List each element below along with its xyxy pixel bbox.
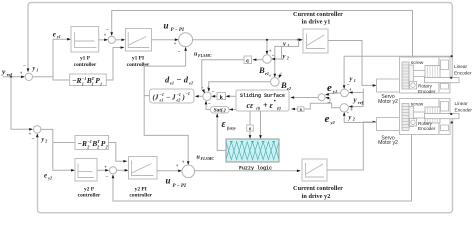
wire combiner output into SS: [290, 96, 318, 99]
svg-text:y1 PI: y1 PI: [132, 56, 144, 62]
svg-text:−1: −1: [160, 92, 164, 97]
svg-text:+: +: [104, 34, 107, 39]
svg-text:1: 1: [287, 43, 289, 48]
wire epsilon outputs from SS down to fuzzy: [249, 111, 262, 139]
svg-text:−1: −1: [177, 92, 181, 97]
svg-text:e: e: [327, 82, 332, 94]
svg-text:(J: (J: [153, 94, 159, 102]
svg-text:y: y: [41, 137, 45, 143]
svg-text:e: e: [44, 172, 47, 180]
svg-text:Fuzzy logic: Fuzzy logic: [239, 164, 273, 171]
svg-text:e: e: [325, 113, 330, 125]
svg-text:+: +: [350, 108, 353, 113]
svg-text:Linear: Linear: [455, 101, 468, 106]
wire SS output into k block: [226, 95, 236, 98]
svg-text:−: −: [178, 50, 181, 55]
svg-text:−: −: [32, 137, 35, 142]
screw mechanism y2: [400, 99, 460, 135]
block y2 P controller: [75, 159, 101, 199]
svg-text:e: e: [53, 30, 56, 38]
svg-text:+: +: [182, 161, 185, 166]
svg-text:+ ε: + ε: [263, 101, 274, 110]
svg-text:Sliding Surface: Sliding Surface: [240, 92, 285, 99]
svg-text:y2: y2: [47, 175, 52, 180]
svg-text:e2: e2: [287, 86, 291, 91]
svg-text:controller: controller: [129, 193, 152, 199]
block k: [211, 93, 225, 101]
svg-text:Encoder: Encoder: [418, 89, 436, 94]
svg-text:−: −: [106, 28, 109, 33]
wire y2 into c-circle from right: [271, 46, 289, 60]
svg-text:2: 2: [96, 144, 99, 149]
wire B path into k-junction: [209, 82, 271, 91]
svg-text:−R: −R: [72, 76, 82, 85]
svg-text:+: +: [176, 164, 179, 169]
label linear encoder y1: [454, 64, 472, 76]
svg-text:y: y: [282, 53, 286, 60]
block s (above fuzzy): [247, 125, 254, 132]
svg-text:Motor y2: Motor y2: [378, 99, 398, 105]
wire y2 linear-encoder feedback bottom loop: [36, 119, 453, 213]
wire y1 feedback from tap to e junction area: [344, 55, 453, 57]
svg-text:c: c: [246, 57, 250, 64]
svg-text:in drive y1: in drive y1: [302, 19, 331, 26]
svg-text:2: 2: [86, 144, 89, 149]
node y_ref input: [1, 67, 25, 78]
svg-text:(t): (t): [277, 105, 282, 110]
svg-text:+: +: [20, 72, 23, 77]
wire junction2 to y2 P controller (e_y2): [41, 129, 75, 180]
svg-text:Encoder: Encoder: [454, 71, 472, 76]
summing junction y2 (y_ref - y2): [29, 126, 48, 144]
svg-text:2: 2: [352, 117, 355, 122]
svg-text:cε: cε: [247, 101, 255, 110]
svg-text:T: T: [97, 139, 100, 144]
svg-text:y1: y1: [56, 34, 61, 39]
wire u_FLSMC into u-junction1 from below: [184, 47, 187, 66]
wire SS bottom output into Sat: [229, 108, 236, 111]
svg-text:+: +: [269, 75, 272, 80]
svg-text:P − PI: P − PI: [173, 184, 187, 189]
svg-text:e2: e2: [189, 81, 193, 86]
label B_e2: [280, 80, 291, 91]
svg-text:in drive y2: in drive y2: [302, 193, 331, 200]
block y2 PI controller: [129, 157, 158, 199]
svg-text:e2: e2: [177, 98, 181, 103]
svg-text:2: 2: [44, 138, 47, 143]
wire branch to R1 block: [53, 77, 70, 80]
block Sliding Surface: [236, 90, 289, 111]
wire c-circle to c block: [253, 58, 263, 61]
wire e_y1 into combiner: [325, 93, 341, 96]
svg-text:y2: y2: [330, 120, 336, 125]
wire y1 rotary-encoder feedback (top inner): [110, 11, 412, 83]
wire u1 tap down to B junction: [274, 40, 299, 78]
block c: [244, 56, 252, 64]
svg-text:Rotary: Rotary: [418, 121, 432, 126]
svg-text:+: +: [104, 166, 107, 171]
wire y1 tap down into c-circle: [266, 39, 272, 55]
svg-text:y: y: [32, 66, 36, 72]
svg-text:): ): [182, 94, 185, 102]
wire PI1 to u-junction1, label u_P-PI: [152, 21, 185, 42]
wire junction1 to y1 P controller (e_y1): [33, 30, 71, 77]
wire c path into k-junction: [202, 60, 244, 93]
wire k-junction output into J block: [195, 95, 203, 98]
block servo motor y2: [377, 118, 401, 147]
block R1 = -R1^-1 B1^T P1: [70, 74, 107, 86]
wire R1 output to PI1 second input: [106, 46, 124, 80]
label epsilon_fuzzy: [222, 119, 236, 131]
block R2 = -R2^-1 B2^T P2: [75, 136, 109, 150]
svg-text:−1: −1: [82, 76, 87, 81]
svg-text:(t): (t): [256, 105, 261, 110]
svg-text:−: −: [327, 101, 330, 106]
svg-text:e1: e1: [170, 81, 174, 86]
wire y2 rotary-encoder feedback (bottom inner): [112, 126, 412, 201]
svg-text:u: u: [164, 21, 169, 31]
label d_e1 - d_e2: [165, 74, 193, 85]
label e_y2: [325, 113, 336, 125]
summing junction k (before J block): [201, 86, 215, 108]
svg-text:k: k: [219, 94, 223, 101]
svg-text:e1: e1: [160, 98, 164, 103]
summing junction combiner (e_y1 - e_y2): [318, 88, 330, 106]
wire y1 linear-encoder feedback top loop: [27, 3, 453, 78]
wire fuzzy output up into Sat: [216, 113, 226, 150]
svg-text:−: −: [208, 103, 211, 108]
label B_e1: [258, 65, 269, 76]
svg-text:controller: controller: [74, 62, 97, 68]
svg-text:s: s: [299, 108, 302, 113]
wire P2 to pre-junction2: [97, 169, 109, 172]
block current controller y2: [293, 159, 343, 200]
svg-text:−R: −R: [78, 139, 88, 148]
block s (right of SS): [298, 107, 304, 113]
svg-text:−: −: [272, 54, 275, 59]
svg-text:1: 1: [82, 81, 84, 86]
wire y_ref branch down to y2 loop: [11, 77, 33, 131]
wire y2 feedback from tap to e junction area: [344, 121, 453, 123]
svg-text:FLSMC: FLSMC: [198, 53, 212, 58]
summing junction pre-PI y2: [104, 166, 116, 180]
svg-text:y1 P: y1 P: [80, 56, 91, 62]
wire e_y2 path through s into SS: [291, 97, 340, 110]
wire R2 output to PI2 second input: [109, 143, 128, 163]
wire current controller y1 to servo motor y1: [328, 41, 377, 87]
svg-text:− J: − J: [166, 94, 176, 102]
summing junction e_y1 (y_ref - y1): [341, 84, 352, 97]
svg-text:Linear: Linear: [454, 64, 467, 69]
wire branch to R2 block: [53, 142, 75, 144]
wire current controller y2 to servo motor y2: [327, 121, 377, 170]
svg-text:T: T: [92, 76, 95, 81]
summing junction pre-PI y1: [104, 28, 116, 43]
label linear encoder y2: [455, 101, 473, 113]
block y1 PI controller: [126, 29, 152, 69]
block y1 P controller: [71, 27, 99, 69]
block (J_e1^-1 - J_e2^-1)^-1: [150, 89, 195, 103]
svg-text:−: −: [212, 91, 215, 96]
svg-text:Motor y2: Motor y2: [378, 140, 398, 146]
svg-text:controller: controller: [127, 62, 150, 68]
block servo motor y1: [377, 79, 401, 105]
summing junction u y1 (u_P-PI - u_FLSMC): [174, 33, 193, 55]
svg-text:1: 1: [100, 81, 102, 86]
svg-text:y: y: [1, 67, 6, 76]
svg-text:Encoder: Encoder: [455, 108, 473, 113]
block Sat(.): [211, 107, 230, 114]
svg-text:1: 1: [92, 81, 94, 86]
screw mechanism y1: [400, 57, 460, 94]
svg-text:−1: −1: [186, 91, 190, 96]
svg-text:−: −: [105, 175, 108, 180]
wire u-junction1 to current controller y1 (y1 line): [193, 39, 303, 48]
svg-text:fuzzy: fuzzy: [227, 126, 236, 131]
wire PI2 to u-junction2, label u_P-PI: [157, 170, 187, 190]
label u_FLSMC y2: [197, 155, 215, 162]
svg-text:1: 1: [354, 78, 356, 83]
svg-text:Current controller: Current controller: [293, 11, 343, 18]
block current controller y1: [293, 11, 343, 53]
svg-text:u: u: [166, 176, 171, 186]
svg-text:1: 1: [36, 67, 38, 72]
svg-text:y: y: [349, 76, 353, 83]
svg-text:Encoder: Encoder: [418, 126, 436, 131]
svg-text:P − PI: P − PI: [171, 28, 185, 33]
svg-text:y1: y1: [332, 89, 337, 94]
svg-text:ref: ref: [358, 100, 364, 105]
svg-text:s: s: [249, 127, 252, 132]
wire J block output to both u-junctions (u_FLSMC): [144, 66, 189, 165]
svg-text:− d: − d: [177, 74, 189, 84]
svg-text:−: −: [23, 64, 26, 69]
label e_y1: [327, 82, 337, 94]
wire y2 feedback up into e_y2 junction: [343, 112, 355, 123]
wire P1 to pre-junction1: [99, 39, 108, 42]
summing junction c (y1 - y2): [263, 55, 272, 64]
summing junction y1 (y_ref - y1): [20, 64, 38, 81]
svg-text:B: B: [280, 80, 287, 90]
svg-text:B: B: [258, 65, 265, 75]
wire Sat output up into k-junction: [205, 101, 211, 110]
svg-text:−1: −1: [87, 139, 92, 144]
wire pre-junction2 to PI2: [117, 169, 129, 172]
svg-text:controller: controller: [78, 193, 101, 199]
wire u-junction2 to current controller y2: [195, 170, 301, 173]
svg-text:Rotary: Rotary: [418, 84, 432, 89]
svg-text:Current controller: Current controller: [293, 185, 343, 192]
svg-text:+: +: [174, 42, 177, 47]
summing junction u y2: [176, 161, 195, 178]
wire y1 feedback down into e_y1 junction: [343, 56, 356, 89]
block Fuzzy logic: [226, 139, 279, 171]
summing junction e_y2 (y_ref - y2): [340, 104, 353, 117]
svg-text:Sat(.): Sat(.): [214, 107, 226, 114]
svg-text:y: y: [348, 114, 352, 121]
wire pre-junction1 to PI1: [115, 39, 125, 42]
svg-text:FLSMC: FLSMC: [201, 156, 215, 161]
label u_FLSMC y1: [194, 52, 212, 59]
wire y_ref bridge into both e junctions: [349, 89, 364, 108]
summing junction B (B_e1 u1 - B_e2 u2): [269, 73, 282, 87]
svg-text:2: 2: [105, 144, 108, 149]
svg-text:2: 2: [286, 56, 289, 61]
